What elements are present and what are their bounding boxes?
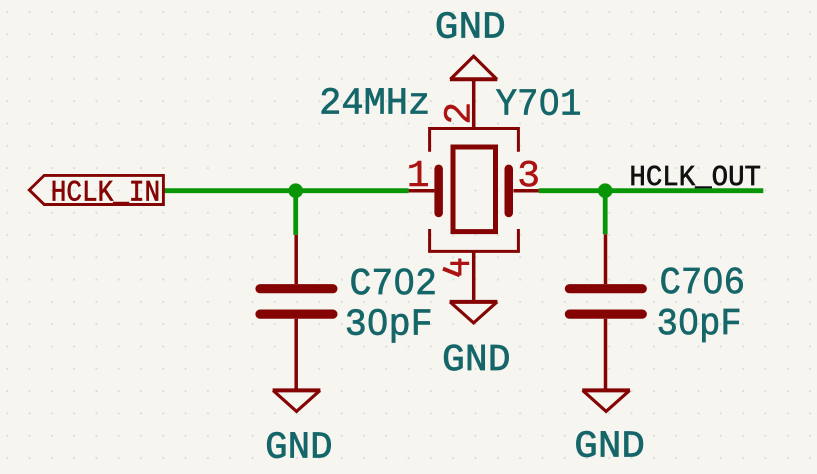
svg-text:HCLK_OUT: HCLK_OUT xyxy=(629,161,761,194)
svg-text:GND: GND xyxy=(265,427,333,470)
svg-text:GND: GND xyxy=(442,339,511,382)
svg-text:GND: GND xyxy=(435,7,506,50)
svg-text:GND: GND xyxy=(574,426,645,469)
svg-text:C702: C702 xyxy=(350,263,438,306)
svg-text:2: 2 xyxy=(439,102,482,125)
svg-text:30pF: 30pF xyxy=(345,303,433,346)
svg-text:1: 1 xyxy=(407,155,430,198)
svg-text:24MHz: 24MHz xyxy=(319,83,430,126)
svg-text:HCLK_IN: HCLK_IN xyxy=(51,176,161,210)
svg-text:Y701: Y701 xyxy=(496,84,582,127)
svg-text:30pF: 30pF xyxy=(657,303,742,346)
svg-text:C706: C706 xyxy=(660,262,746,305)
svg-text:3: 3 xyxy=(517,155,540,198)
